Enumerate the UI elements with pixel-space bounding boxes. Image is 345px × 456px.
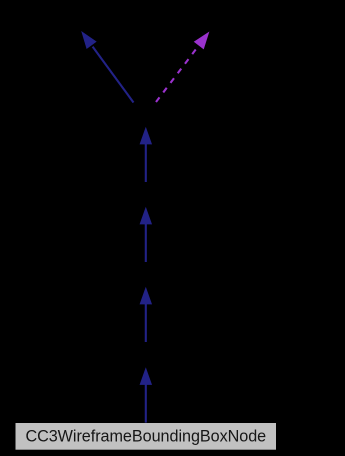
diagonal solid inheritance arrow (up-left) bbox=[81, 31, 133, 102]
class box CC3WireframeBoundingBoxNode bbox=[16, 423, 277, 450]
inheritance arrow 4 bbox=[140, 127, 153, 182]
inheritance arrow 1 (box to hidden parent) bbox=[140, 367, 153, 422]
inheritance arrow 2 bbox=[140, 287, 153, 342]
dashed usage arrow (up-right, purple) bbox=[156, 31, 209, 102]
inheritance arrow 3 bbox=[140, 207, 153, 262]
svg-text:CC3WireframeBoundingBoxNode: CC3WireframeBoundingBoxNode bbox=[25, 427, 266, 445]
